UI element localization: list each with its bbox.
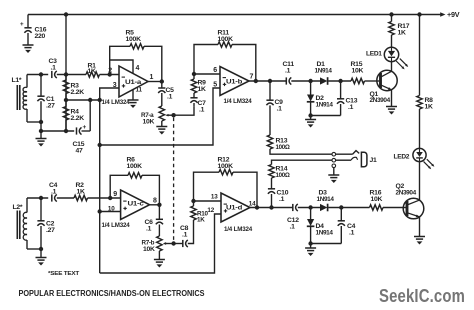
potentiometer R7-a — [159, 106, 164, 121]
capacitor C3 — [51, 71, 53, 78]
svg-text:1: 1 — [150, 74, 154, 81]
op-amp U1-d — [221, 193, 250, 222]
capacitor C15 — [76, 127, 78, 134]
capacitor C12 — [292, 204, 294, 211]
svg-text:1K: 1K — [88, 68, 97, 75]
node feedback/output d — [255, 205, 259, 209]
wire R2 to U1-c pin9 — [88, 197, 121, 199]
svg-text:100K: 100K — [218, 163, 234, 170]
capacitor C6 — [158, 205, 160, 220]
op-amp U1-a — [119, 66, 148, 97]
svg-text:J1: J1 — [370, 157, 378, 164]
resistor R5 — [110, 46, 130, 74]
wire D3 to R16 — [328, 207, 369, 209]
node D4 tap — [308, 205, 312, 209]
node C13 tap — [338, 79, 342, 83]
node R17 rail tap — [389, 12, 393, 16]
node +9V arrow — [440, 12, 445, 16]
svg-text:1/4 LM324: 1/4 LM324 — [224, 226, 252, 233]
svg-text:U1-a: U1-a — [125, 79, 142, 86]
svg-text:100Ω: 100Ω — [276, 144, 290, 151]
svg-text:U1-c: U1-c — [128, 201, 145, 208]
wire pin6 — [194, 73, 220, 75]
svg-text:4: 4 — [136, 65, 140, 72]
node rail/R3 column — [64, 12, 68, 16]
wire C1 to R4 bottom — [41, 130, 74, 132]
node D2 ground tap — [308, 113, 312, 117]
node R7-b wiper — [171, 241, 175, 245]
svg-text:47: 47 — [76, 148, 84, 155]
svg-text:.27: .27 — [46, 227, 55, 234]
diode D2 — [310, 81, 312, 95]
capacitor C8 — [182, 240, 184, 247]
svg-text:.1: .1 — [146, 226, 152, 233]
svg-text:.1: .1 — [182, 232, 188, 239]
wire C15 to riser — [82, 130, 91, 132]
wire pin10 — [100, 211, 121, 213]
node pin13 junction — [191, 199, 195, 203]
resistor R15 — [351, 78, 365, 83]
svg-text:9: 9 — [113, 191, 117, 198]
resistor R1 — [86, 72, 100, 77]
node U1-b pin6 junction — [192, 72, 196, 76]
wire bias bus to U1-b pin5 — [100, 88, 220, 145]
pin 11 stub — [132, 90, 134, 100]
svg-text:.1: .1 — [279, 196, 285, 203]
ground under pin 11 — [128, 99, 139, 101]
svg-text:.1: .1 — [285, 68, 291, 75]
wire R3/R4 junction to pin3 node — [66, 99, 100, 101]
wire U1-d output run — [250, 207, 293, 209]
svg-text:10K: 10K — [143, 119, 155, 126]
svg-text:13: 13 — [211, 194, 218, 201]
svg-text:.1: .1 — [167, 94, 173, 101]
resistor R2 — [74, 195, 88, 200]
wire R15 to Q1 base — [365, 80, 380, 82]
svg-text:1N914: 1N914 — [316, 102, 334, 109]
wire C11 to D1 — [291, 80, 320, 82]
wire L1 to C3 — [27, 74, 48, 76]
ground under C2 — [40, 249, 42, 258]
wire right rail upper — [419, 15, 421, 96]
svg-text:10K: 10K — [143, 246, 155, 253]
capacitor C14 — [340, 208, 342, 221]
R7-b wiper arrow — [164, 243, 173, 245]
wire C4 to R2 — [57, 197, 74, 199]
inductor L1 — [26, 75, 28, 88]
jack J1 tip line — [336, 153, 353, 155]
svg-text:.1: .1 — [51, 65, 57, 72]
jack J1 tip contact — [332, 152, 336, 156]
wire L2 bottom — [27, 248, 41, 250]
wire C3 to R1 — [57, 74, 86, 76]
transistor Q2 — [403, 198, 424, 219]
ground under Q1 — [386, 106, 397, 108]
node C10 tap — [269, 205, 273, 209]
svg-text:3: 3 — [113, 82, 117, 89]
svg-text:L2*: L2* — [13, 204, 23, 211]
diode D1 — [320, 77, 327, 84]
wire C12 to D3 — [298, 207, 320, 209]
wire L1 bottom — [27, 121, 41, 123]
capacitor C7 — [190, 97, 197, 99]
node riser top — [88, 98, 92, 102]
wire C8 to R10 — [188, 220, 194, 244]
svg-text:U1-b: U1-b — [226, 79, 242, 86]
svg-text:1/4 LM324: 1/4 LM324 — [102, 99, 130, 106]
wire D2-C13 bottom — [311, 115, 341, 117]
wire bottom bias run to U1-d pin12 — [100, 214, 221, 273]
node R4 bottom — [64, 129, 68, 133]
svg-text:+: + — [83, 124, 87, 131]
node pin9/R6 junction — [108, 196, 112, 200]
resistor R13 — [267, 135, 272, 149]
ground under R7-b — [154, 259, 165, 261]
wire pin13 — [194, 200, 222, 202]
wire wiper to C7 — [174, 107, 194, 116]
pin 4 stub — [110, 60, 133, 73]
ground under D2 — [310, 116, 312, 120]
capacitor C13 — [340, 81, 342, 99]
svg-text:SeekIC.com: SeekIC.com — [379, 285, 465, 306]
resistor R16 — [370, 205, 384, 210]
svg-text:1N914: 1N914 — [315, 68, 333, 75]
ground under C1 — [40, 131, 42, 139]
svg-text:LED1: LED1 — [366, 51, 382, 58]
resistor R12 — [194, 172, 220, 201]
wire bias column x99 — [99, 100, 101, 273]
jack J1 ring line — [336, 159, 351, 161]
capacitor C11 — [285, 77, 287, 84]
svg-text:POPULAR ELECTRONICS/HANDS-ON E: POPULAR ELECTRONICS/HANDS-ON ELECTRONICS — [19, 289, 205, 298]
resistor R9 — [193, 74, 195, 79]
svg-text:1K: 1K — [398, 30, 407, 37]
svg-text:.1: .1 — [277, 106, 283, 113]
node R3/R4 junction — [64, 98, 68, 102]
wire L2 to C4 — [27, 197, 48, 199]
node C9 tap — [268, 79, 272, 83]
wire pin3 corner — [100, 88, 119, 100]
wire riser to bias node — [89, 100, 91, 131]
ground under D4 — [310, 244, 312, 249]
node D2 tap — [308, 79, 312, 83]
svg-text:+9V: +9V — [447, 10, 460, 19]
node bias/pin10 T — [98, 209, 102, 213]
capacitor C1 — [40, 75, 42, 97]
node output/C5 — [160, 79, 164, 83]
capacitor C10 — [268, 188, 275, 190]
svg-text:100Ω: 100Ω — [276, 172, 290, 179]
svg-text:*SEE TEXT: *SEE TEXT — [48, 271, 80, 277]
wire Q1 emitter — [391, 90, 393, 107]
svg-text:1N914: 1N914 — [316, 230, 334, 237]
node C14 tap — [339, 205, 343, 209]
ground under Q2 — [414, 236, 425, 238]
svg-text:1/4 LM324: 1/4 LM324 — [224, 98, 252, 105]
svg-text:U1-d: U1-d — [226, 205, 242, 212]
node L2/C2 bottom — [39, 247, 43, 251]
resistor R8 — [417, 96, 422, 110]
svg-text:.1: .1 — [51, 189, 57, 196]
svg-text:5: 5 — [213, 82, 217, 89]
diode D4 — [310, 208, 312, 220]
svg-text:10K: 10K — [352, 68, 364, 75]
svg-text:1/4 LM324: 1/4 LM324 — [102, 222, 130, 229]
jack J1 sleeve contact — [332, 164, 336, 168]
resistor R3 — [65, 75, 67, 81]
svg-text:8: 8 — [153, 197, 157, 204]
svg-text:10K: 10K — [371, 196, 383, 203]
svg-text:11: 11 — [136, 87, 143, 94]
diode D3 — [320, 204, 327, 211]
wire R16 to Q2 base — [383, 207, 406, 209]
svg-text:2N3904: 2N3904 — [370, 97, 391, 104]
inductor L2 — [26, 198, 28, 213]
op-amp U1-b — [220, 67, 249, 96]
transistor Q1 — [377, 70, 397, 90]
svg-text:2N3904: 2N3904 — [396, 190, 417, 197]
svg-text:L1*: L1* — [12, 77, 22, 84]
svg-text:.1: .1 — [348, 104, 354, 111]
node L1/C1 bottom — [39, 120, 43, 124]
node C2 tap — [39, 196, 43, 200]
wire D1 to R15 — [328, 80, 351, 82]
node D4 ground tap — [308, 241, 312, 245]
svg-text:+: + — [20, 21, 24, 28]
node x66 on wire A — [64, 72, 68, 76]
svg-text:100K: 100K — [126, 36, 142, 43]
node C1 tap — [39, 72, 43, 76]
wire U1-c output — [150, 204, 160, 206]
R7-a wiper arrow — [167, 114, 174, 116]
node bias/bus T — [98, 143, 102, 147]
node pin2/R5 junction — [108, 72, 112, 76]
svg-text:100K: 100K — [127, 163, 143, 170]
wire U1-b output run — [249, 80, 286, 82]
wire R1 to U1-a pin2 — [100, 74, 120, 76]
capacitor C9 — [269, 81, 271, 100]
ground under J1 — [328, 174, 339, 176]
wire wiper to C8 — [174, 243, 183, 245]
svg-text:6: 6 — [213, 67, 217, 74]
resistor R6 — [110, 175, 128, 198]
LED2 — [413, 148, 426, 161]
wire D4-C14 bottom — [311, 243, 342, 245]
resistor R4 — [65, 100, 67, 107]
wire R8 to LED2 — [419, 109, 421, 149]
ground under C16 — [23, 44, 34, 46]
wire gang dashed R7-a to R7-b — [173, 118, 175, 243]
wire J1 sleeve to ground — [333, 168, 335, 175]
resistor R17 — [391, 15, 393, 22]
svg-text:14: 14 — [249, 200, 256, 207]
jack J1 ring contact — [332, 158, 336, 162]
svg-text:2.2K: 2.2K — [71, 89, 85, 96]
wire LED2 to Q2 collector — [419, 162, 421, 201]
capacitor C5 — [161, 82, 163, 89]
node R7-a wiper — [171, 113, 175, 117]
wire rail to R3 column — [65, 15, 67, 132]
node right rail tap — [417, 12, 421, 16]
svg-text:1K: 1K — [425, 104, 434, 111]
ground under R7-a — [156, 126, 167, 128]
svg-text:1K: 1K — [77, 189, 86, 196]
capacitor C16 — [27, 15, 29, 28]
svg-text:1K: 1K — [197, 217, 205, 224]
svg-text:1K: 1K — [198, 86, 207, 93]
svg-text:7: 7 — [250, 73, 254, 80]
op-amp U1-c — [121, 190, 150, 220]
svg-text:.1: .1 — [349, 230, 355, 237]
resistor R11 — [194, 45, 218, 75]
svg-text:1N914: 1N914 — [317, 196, 335, 203]
svg-text:.1: .1 — [199, 107, 205, 114]
wire +9V supply rail — [28, 14, 441, 16]
svg-text:.1: .1 — [290, 224, 296, 231]
wire LED1 to Q1 collector — [391, 62, 393, 72]
wire Q2 emitter — [419, 217, 421, 237]
svg-text:LED2: LED2 — [394, 154, 410, 161]
jack J1 plug — [361, 152, 367, 167]
capacitor C4 — [51, 194, 53, 201]
potentiometer R7-b — [157, 236, 162, 251]
svg-text:.27: .27 — [46, 103, 55, 110]
node output/C6 — [157, 203, 161, 207]
capacitor C2 — [40, 198, 42, 221]
svg-text:220: 220 — [35, 33, 46, 40]
node feedback/output — [254, 79, 258, 83]
svg-text:100K: 100K — [218, 36, 234, 43]
svg-text:12: 12 — [207, 207, 214, 214]
node C1 bottom bus — [39, 129, 43, 133]
svg-text:2.2K: 2.2K — [71, 115, 85, 122]
LED1 — [384, 47, 398, 61]
resistor R10 — [191, 206, 196, 220]
resistor R14 — [272, 160, 333, 164]
wire U1-a output — [148, 81, 162, 83]
node pin3 bias — [98, 98, 102, 102]
